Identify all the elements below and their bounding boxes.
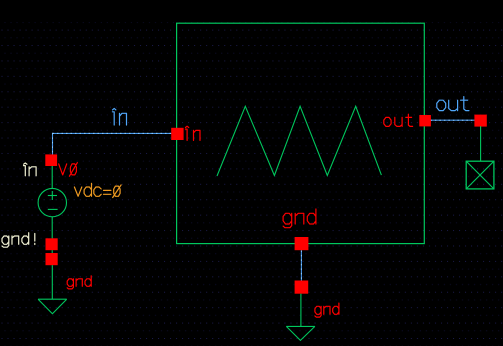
- wire net gnd: [300, 250, 302, 280]
- pin label in: [185, 126, 200, 140]
- instance I0 symbol body (box): [177, 23, 425, 243]
- pin label out: [384, 114, 413, 126]
- gnd instance label (bottom): [315, 303, 339, 317]
- V0 plus terminal square: [45, 154, 57, 166]
- gnd instance label (left): [67, 276, 91, 289]
- gnd symbol pin square (left): [46, 253, 58, 265]
- V0 top stub: [51, 166, 53, 188]
- gnd symbol pin square (bottom): [295, 281, 309, 294]
- V0 bottom stub: [51, 217, 53, 239]
- noConn stub: [480, 126, 482, 161]
- V0 value label vdc=0: [74, 183, 121, 197]
- ground symbol bottom: [286, 326, 315, 340]
- wire net out: [430, 119, 475, 121]
- pin label gnd: [283, 209, 316, 228]
- instance name V0: [59, 163, 78, 177]
- net label in: [112, 108, 126, 125]
- V0 source circle: [38, 188, 66, 216]
- instance I0 triangle-wave glyph: [217, 106, 381, 176]
- net name gnd! (white): [2, 233, 35, 248]
- V0 minus terminal square: [46, 238, 58, 250]
- V0 plus sign: [48, 191, 57, 200]
- V0 minus sign: [48, 208, 58, 210]
- pin square in: [171, 128, 183, 140]
- net name in (white): [24, 163, 37, 176]
- wire net in (vertical drop to V0): [52, 133, 54, 155]
- noConn symbol (box with X): [466, 161, 494, 189]
- pin square gnd: [295, 237, 309, 250]
- short wire between squares: [51, 250, 53, 253]
- wire net in (horizontal): [53, 132, 172, 134]
- net label out: [437, 97, 469, 111]
- gnd symbol stub (bottom): [300, 294, 302, 327]
- out net square (right): [474, 115, 486, 127]
- pin square out: [419, 115, 431, 126]
- gnd symbol stub (left): [51, 265, 53, 299]
- ground symbol left: [38, 299, 67, 314]
